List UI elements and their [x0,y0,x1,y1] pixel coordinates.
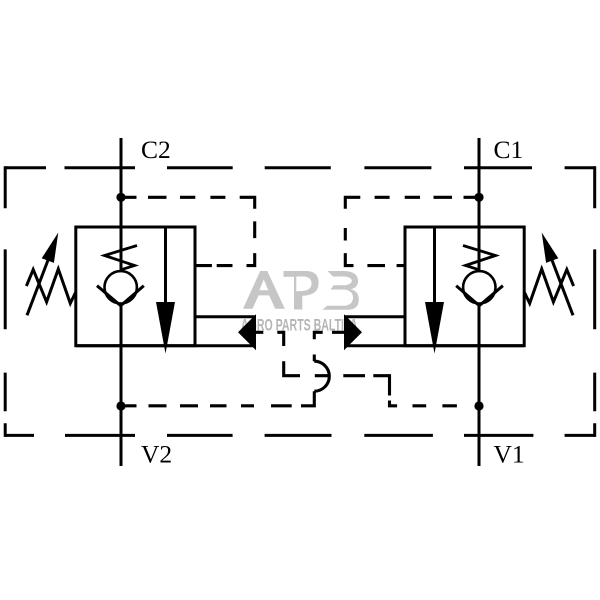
wire: right valve pilot port upper line [344,315,405,318]
wire: left valve pilot port upper line [195,315,256,318]
line hop [314,361,329,391]
wire: left valve bottom edge extension [76,344,256,347]
flow arrowhead right (down) [425,302,444,354]
pilot dashed line C1 to right valve [345,197,479,265]
spring (check) right [463,246,496,270]
svg-text:C2: C2 [141,135,171,164]
outer dashed boundary: left edge [4,166,7,437]
wire: left free-flow path [164,227,167,305]
pilot dashed line C2 to left valve [121,197,255,265]
relief spring left (adjustable) [26,269,75,303]
wire: V1 port line [478,305,481,467]
pilot arrowhead right (points right) [344,314,362,350]
check ball left [105,271,137,303]
pilot crossover B: right valve pilot from V2 [314,332,344,361]
svg-text:C1: C1 [494,135,524,164]
wire: C1 port line [478,138,481,271]
node: V1 pilot junction [474,401,483,410]
spring (check) left [105,246,138,270]
check ball right [463,271,495,303]
node: V2 pilot junction [116,401,125,410]
wire: right free-flow path [433,227,436,305]
node: C1 pilot junction [474,193,483,202]
check seat right [456,286,503,306]
valve body right [405,227,524,346]
wire: V2 port line [120,305,123,467]
pilot crossover A: left valve pilot from V1 [256,332,457,406]
adjust arrowhead left [42,233,59,263]
flow arrowhead left (down) [156,302,175,354]
outer dashed boundary: top edge [5,166,595,169]
valve body left [76,227,195,346]
svg-text:V1: V1 [494,440,525,469]
wire: C2 port line [120,138,123,271]
relief spring right (adjustable) [524,269,573,303]
adjust arrow shaft right [551,258,573,316]
node: C2 pilot junction [116,193,125,202]
check seat left [97,286,144,306]
watermark APB logo [243,271,359,310]
svg-text:V2: V2 [141,440,172,469]
outer dashed boundary: bottom edge [5,434,595,437]
wire: right valve bottom edge extension [344,344,524,347]
adjust arrowhead right [542,233,559,263]
outer dashed boundary: right edge [593,166,596,437]
pilot arrowhead left (points left) [238,314,256,350]
adjust arrow shaft left [27,258,49,316]
